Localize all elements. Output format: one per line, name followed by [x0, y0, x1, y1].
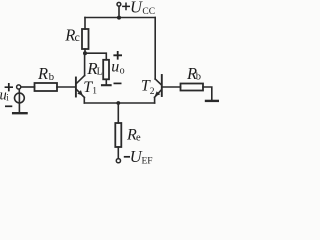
minus sign uo — [114, 82, 122, 84]
ground right — [206, 100, 218, 102]
wire RL bottom stub — [105, 79, 107, 84]
plus sign ui — [5, 83, 13, 91]
terminal ui top — [17, 85, 21, 89]
wire Rb to T1 base — [57, 86, 75, 88]
wire Re bottom lead — [117, 147, 119, 159]
svg-text:CC: CC — [142, 7, 155, 17]
svg-text:U: U — [130, 0, 143, 17]
wire source to ground — [18, 93, 20, 112]
wire T2 emitter vertical — [154, 97, 156, 103]
wire terminal to source — [18, 89, 20, 93]
wire collector vertical T1 — [84, 53, 86, 75]
svg-text:2: 2 — [150, 87, 155, 97]
source ui circle — [15, 93, 25, 103]
svg-text:1: 1 — [92, 87, 97, 97]
wire Rc top lead — [84, 18, 86, 30]
svg-text:L: L — [97, 67, 103, 78]
resistor Rb right — [181, 84, 204, 91]
node UCC junction dot — [117, 16, 121, 20]
wire Re top lead — [117, 103, 119, 123]
ground under RL — [102, 84, 111, 86]
resistor RL — [103, 60, 109, 80]
bottom emitter wire — [84, 102, 154, 104]
resistor RC — [82, 29, 89, 49]
plus sign uo — [113, 51, 122, 60]
wire T2 collector vertical — [154, 18, 156, 80]
transistor T2 — [155, 75, 162, 97]
plus sign UCC — [122, 3, 130, 11]
node emitter junction dot — [116, 101, 120, 105]
svg-text:c: c — [75, 30, 80, 44]
svg-text:b: b — [196, 72, 201, 83]
wire top rail — [85, 17, 155, 19]
svg-text:u: u — [111, 58, 119, 75]
svg-text:b: b — [49, 71, 55, 83]
minus sign ui — [5, 105, 12, 107]
svg-text:e: e — [136, 133, 141, 144]
transistor T1 — [76, 76, 85, 98]
minus sign UEF — [124, 156, 130, 158]
resistor Re — [115, 123, 121, 147]
wire Rb right to ground — [203, 87, 212, 100]
wire T1 base — [21, 86, 35, 88]
wire branch to RL — [85, 53, 106, 60]
svg-text:o: o — [120, 65, 125, 76]
svg-text:R: R — [37, 64, 48, 83]
resistor Rb left — [35, 83, 58, 91]
wire T2 base — [163, 86, 181, 88]
wire T1 emitter vertical — [83, 97, 85, 103]
node collector T1 junction dot — [83, 51, 87, 55]
ground left — [13, 112, 27, 114]
wire UCC terminal lead — [118, 6, 120, 17]
wire Rc bottom lead — [84, 49, 86, 53]
terminal UCC — [117, 2, 121, 6]
terminal UEF — [116, 159, 120, 163]
svg-text:EF: EF — [142, 157, 153, 167]
